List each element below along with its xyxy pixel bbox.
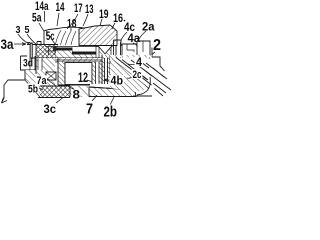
svg-text:3: 3 [16, 25, 21, 36]
svg-text:4: 4 [136, 55, 142, 69]
svg-text:13: 13 [85, 2, 94, 16]
svg-text:7a: 7a [37, 75, 48, 87]
svg-text:2b: 2b [104, 105, 118, 121]
svg-text:5b: 5b [28, 84, 38, 96]
svg-text:3d: 3d [23, 58, 33, 70]
svg-text:5: 5 [25, 25, 30, 36]
svg-text:2a: 2a [142, 20, 155, 34]
svg-text:8: 8 [73, 88, 81, 102]
svg-text:16: 16 [113, 11, 123, 25]
svg-text:4a: 4a [128, 31, 141, 45]
svg-text:2c: 2c [133, 69, 142, 81]
svg-text:4b: 4b [111, 74, 124, 88]
svg-text:3c: 3c [44, 102, 57, 116]
svg-text:19: 19 [99, 7, 109, 21]
svg-text:5c: 5c [46, 29, 55, 43]
svg-text:7: 7 [86, 102, 93, 118]
svg-text:18: 18 [67, 17, 77, 31]
svg-text:3a: 3a [1, 37, 14, 52]
svg-text:14: 14 [56, 0, 65, 14]
svg-text:2: 2 [153, 37, 161, 54]
svg-text:12: 12 [78, 70, 88, 85]
svg-text:5a: 5a [32, 11, 42, 25]
svg-text:17: 17 [74, 1, 83, 15]
